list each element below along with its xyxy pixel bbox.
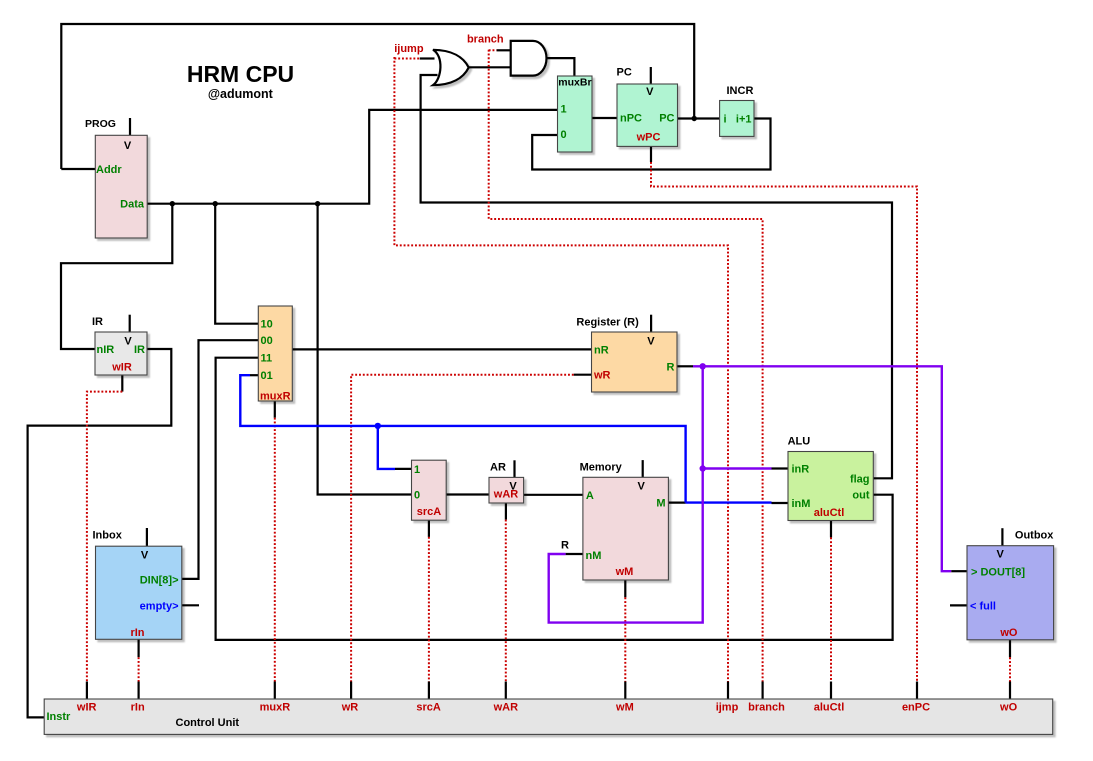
svg-text:Addr: Addr xyxy=(96,164,122,176)
svg-text:Inbox: Inbox xyxy=(93,530,123,542)
svg-text:muxR: muxR xyxy=(260,391,291,403)
svg-text:wM: wM xyxy=(615,566,634,578)
svg-text:nR: nR xyxy=(594,345,609,357)
svg-text:nPC: nPC xyxy=(620,113,642,125)
svg-text:M: M xyxy=(656,498,665,510)
svg-text:0: 0 xyxy=(561,129,567,141)
svg-text:aluCtl: aluCtl xyxy=(814,507,845,519)
svg-text:rIn: rIn xyxy=(131,702,145,714)
svg-text:0: 0 xyxy=(414,490,420,502)
svg-text:R: R xyxy=(561,540,569,552)
svg-text:10: 10 xyxy=(261,319,273,331)
svg-text:V: V xyxy=(997,549,1005,561)
svg-text:aluCtl: aluCtl xyxy=(814,702,845,714)
svg-text:Control Unit: Control Unit xyxy=(176,717,240,729)
svg-text:wO: wO xyxy=(999,627,1018,639)
svg-text:i+1: i+1 xyxy=(736,113,752,125)
svg-text:V: V xyxy=(124,140,132,152)
svg-text:PROG: PROG xyxy=(85,118,116,130)
svg-text:INCR: INCR xyxy=(727,85,754,97)
svg-text:wR: wR xyxy=(341,702,359,714)
svg-text:PC: PC xyxy=(617,67,632,79)
svg-text:V: V xyxy=(141,549,149,561)
svg-text:muxR: muxR xyxy=(260,702,291,714)
svg-text:IR: IR xyxy=(134,344,145,356)
svg-text:wPC: wPC xyxy=(636,131,661,143)
svg-text:branch: branch xyxy=(748,702,785,714)
svg-text:< full: < full xyxy=(970,600,996,612)
svg-text:flag: flag xyxy=(850,473,870,485)
svg-text:out: out xyxy=(852,490,869,502)
svg-text:wAR: wAR xyxy=(493,702,519,714)
svg-text:branch: branch xyxy=(467,33,504,45)
svg-text:PC: PC xyxy=(659,113,674,125)
svg-text:11: 11 xyxy=(261,353,273,365)
svg-text:wM: wM xyxy=(615,702,634,714)
svg-text:wIR: wIR xyxy=(111,361,132,373)
svg-text:nIR: nIR xyxy=(97,344,115,356)
svg-text:V: V xyxy=(124,335,132,347)
svg-text:rIn: rIn xyxy=(130,627,144,639)
svg-text:inM: inM xyxy=(792,498,811,510)
svg-text:Register (R): Register (R) xyxy=(576,317,639,329)
svg-text:V: V xyxy=(646,86,654,98)
svg-text:1: 1 xyxy=(414,464,420,476)
svg-text:wO: wO xyxy=(999,702,1018,714)
svg-text:srcA: srcA xyxy=(416,702,441,714)
svg-text:Instr: Instr xyxy=(47,711,72,723)
svg-text:A: A xyxy=(586,490,594,502)
svg-text:ijmp: ijmp xyxy=(716,702,739,714)
svg-text:HRM CPU: HRM CPU xyxy=(187,61,294,87)
svg-text:nM: nM xyxy=(586,550,602,562)
svg-text:srcA: srcA xyxy=(417,506,442,518)
svg-text:Outbox: Outbox xyxy=(1015,530,1054,542)
svg-text:ALU: ALU xyxy=(788,436,811,448)
svg-text:V: V xyxy=(647,335,655,347)
svg-text:ijump: ijump xyxy=(394,43,424,55)
svg-text:i: i xyxy=(724,113,727,125)
svg-text:wIR: wIR xyxy=(76,702,97,714)
svg-text:Data: Data xyxy=(120,199,145,211)
svg-text:muxBr: muxBr xyxy=(558,77,591,89)
svg-text:DIN[8]>: DIN[8]> xyxy=(140,574,179,586)
svg-text:1: 1 xyxy=(561,104,567,116)
svg-text:Memory: Memory xyxy=(580,462,623,474)
svg-text:> DOUT[8]: > DOUT[8] xyxy=(971,566,1025,578)
svg-text:wAR: wAR xyxy=(493,489,519,501)
svg-text:AR: AR xyxy=(490,462,506,474)
svg-text:wR: wR xyxy=(593,370,611,382)
svg-text:@adumont: @adumont xyxy=(208,87,274,101)
svg-text:inR: inR xyxy=(792,464,810,476)
svg-text:R: R xyxy=(667,361,675,373)
svg-text:IR: IR xyxy=(92,316,103,328)
svg-text:empty>: empty> xyxy=(140,600,179,612)
svg-text:enPC: enPC xyxy=(902,702,930,714)
svg-text:01: 01 xyxy=(261,370,273,382)
svg-text:V: V xyxy=(638,480,646,492)
svg-text:00: 00 xyxy=(261,335,273,347)
